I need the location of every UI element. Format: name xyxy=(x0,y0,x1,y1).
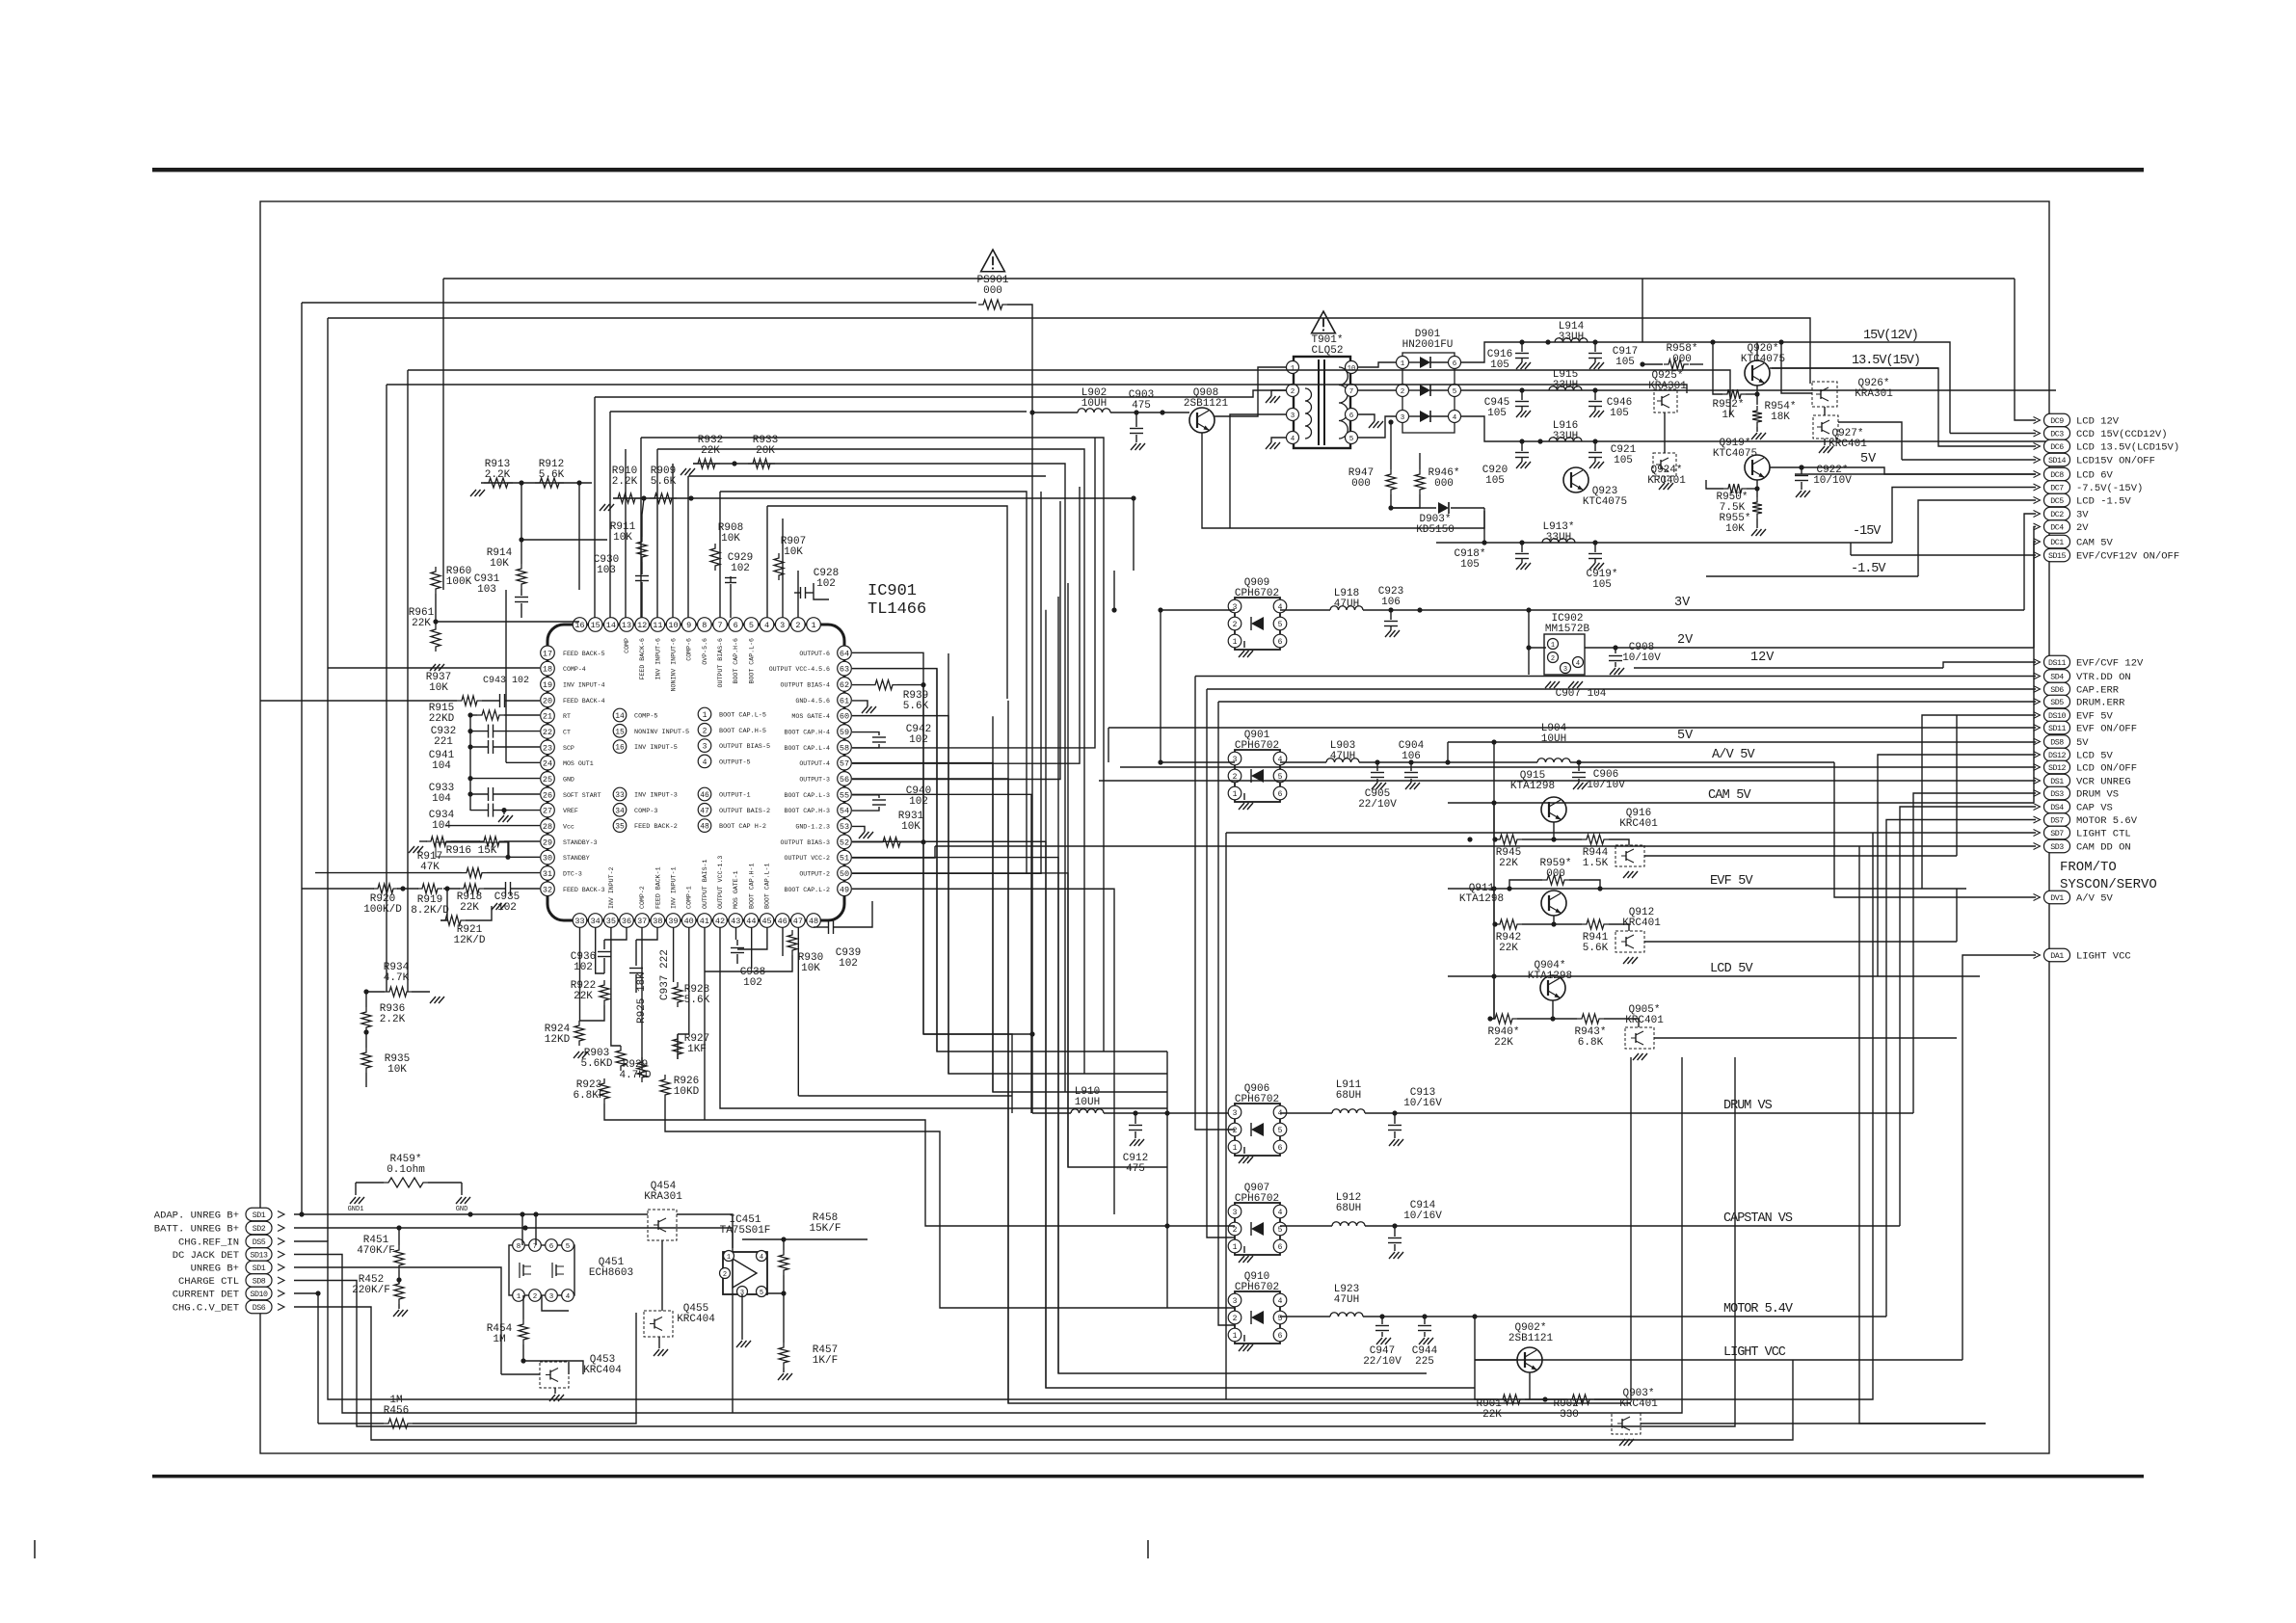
wire DS11 feed xyxy=(1943,662,2036,668)
wire SD11b feed xyxy=(1108,727,2036,729)
svg-text:22K: 22K xyxy=(1482,1409,1502,1421)
svg-text:EVF 5V: EVF 5V xyxy=(2076,711,2114,723)
wire pin33 down xyxy=(579,927,581,1021)
wire top nest vertical xyxy=(442,279,444,590)
wire DC7 feed xyxy=(1892,488,2036,544)
svg-text:BOOT CAP.H-6: BOOT CAP.H-6 xyxy=(733,638,739,684)
svg-text:OVP-5.6: OVP-5.6 xyxy=(702,638,708,665)
svg-text:ECH8603: ECH8603 xyxy=(589,1267,633,1279)
wire xyxy=(852,763,993,1092)
wire vertical x1096 xyxy=(1046,610,1475,1388)
svg-text:8.2K/D: 8.2K/D xyxy=(411,905,449,917)
svg-text:EVF ON/OFF: EVF ON/OFF xyxy=(2076,724,2137,735)
svg-text:LIGHT CTL: LIGHT CTL xyxy=(2076,829,2131,840)
svg-text:FEED BACK-3: FEED BACK-3 xyxy=(563,887,605,893)
svg-text:Vcc: Vcc xyxy=(563,823,574,830)
wire DC3 feed xyxy=(1950,433,2036,435)
svg-text:48: 48 xyxy=(700,823,709,832)
svg-text:2: 2 xyxy=(533,1293,538,1301)
svg-text:61: 61 xyxy=(840,696,849,705)
wire DC1 feed xyxy=(2034,542,2036,803)
svg-text:1: 1 xyxy=(1233,638,1238,647)
svg-text:CHG.REF_IN: CHG.REF_IN xyxy=(178,1237,239,1249)
connector DS11 xyxy=(2044,655,2070,669)
connector DC9 xyxy=(2044,413,2070,427)
wire nest y330 xyxy=(328,318,1810,384)
svg-text:34: 34 xyxy=(615,807,625,815)
svg-text:SYSCON/SERVO: SYSCON/SERVO xyxy=(2060,877,2157,892)
svg-text:COMP: COMP xyxy=(624,638,630,653)
connector DS12 xyxy=(2044,748,2070,761)
wire bus58 xyxy=(852,438,1095,748)
wire T901-D901 xyxy=(1358,362,1396,367)
svg-text:51: 51 xyxy=(840,854,849,864)
svg-text:2: 2 xyxy=(1233,1226,1238,1235)
svg-text:4.7K: 4.7K xyxy=(384,972,410,984)
connector DS6 left xyxy=(246,1300,272,1314)
connector DS4 xyxy=(2044,800,2070,813)
svg-text:COMP-3: COMP-3 xyxy=(634,808,657,815)
wire xyxy=(693,464,1065,1092)
connector SD14 xyxy=(2044,453,2070,466)
svg-text:30: 30 xyxy=(543,854,552,864)
wire lower spread5 xyxy=(705,955,792,971)
wire Q908 to T901 xyxy=(1215,367,1286,416)
wire Q902 base row xyxy=(1475,1317,1498,1399)
wire pin42 down xyxy=(720,927,1167,1108)
svg-text:12: 12 xyxy=(637,621,647,630)
svg-text:LCD 5V: LCD 5V xyxy=(1710,962,1754,976)
svg-text:VCR UNREG: VCR UNREG xyxy=(2076,777,2131,788)
svg-text:FROM/TO: FROM/TO xyxy=(2060,860,2117,875)
svg-text:OUTPUT BIAS-6: OUTPUT BIAS-6 xyxy=(717,638,724,687)
svg-text:19: 19 xyxy=(543,680,552,690)
svg-text:OUTPUT-2: OUTPUT-2 xyxy=(799,870,830,877)
svg-text:60: 60 xyxy=(840,712,849,722)
svg-text:2: 2 xyxy=(1233,1315,1238,1323)
svg-text:DS7: DS7 xyxy=(2050,817,2064,826)
svg-text:105: 105 xyxy=(1610,408,1629,419)
svg-text:27: 27 xyxy=(543,807,552,816)
wire regulator left bus xyxy=(1493,742,1495,1019)
wire DS3 feed xyxy=(1913,793,2036,1113)
svg-text:22K: 22K xyxy=(574,991,593,1002)
svg-text:2: 2 xyxy=(795,621,800,630)
svg-text:105: 105 xyxy=(1614,455,1633,466)
svg-text:OUTPUT VCC-1.3: OUTPUT VCC-1.3 xyxy=(717,856,724,909)
svg-text:STANDBY-3: STANDBY-3 xyxy=(563,839,598,846)
svg-text:41: 41 xyxy=(700,917,709,926)
resistor R942 xyxy=(1495,919,1522,929)
svg-text:2: 2 xyxy=(1401,388,1405,396)
svg-text:5: 5 xyxy=(1278,1127,1283,1135)
bottom tick marks xyxy=(34,1540,36,1558)
wire pin40 down xyxy=(678,927,689,1034)
svg-text:CAPSTAN VS: CAPSTAN VS xyxy=(1723,1211,1793,1226)
connector DC2 xyxy=(2044,507,2070,520)
svg-text:BOOT CAP.L-3: BOOT CAP.L-3 xyxy=(785,792,831,799)
svg-text:BOOT CAP.L-2: BOOT CAP.L-2 xyxy=(785,887,831,893)
svg-text:SD14: SD14 xyxy=(2048,457,2066,466)
svg-text:SD5: SD5 xyxy=(2050,699,2064,707)
wire pin1 up xyxy=(814,583,829,599)
svg-text:225: 225 xyxy=(1415,1356,1434,1368)
svg-text:CAP.ERR: CAP.ERR xyxy=(2076,685,2120,697)
wire vertical x972 xyxy=(937,669,1167,1051)
svg-text:5: 5 xyxy=(749,621,754,630)
svg-text:475: 475 xyxy=(1126,1163,1145,1175)
wire SD6 feed xyxy=(1207,688,2036,690)
svg-text:43: 43 xyxy=(731,917,740,926)
svg-text:COMP-6: COMP-6 xyxy=(686,638,693,661)
svg-text:SD3: SD3 xyxy=(2050,843,2064,852)
svg-text:OUTPUT-5: OUTPUT-5 xyxy=(719,758,751,766)
svg-text:1: 1 xyxy=(1233,1243,1238,1252)
svg-text:DC3: DC3 xyxy=(2050,431,2064,439)
svg-text:13.5V(15V): 13.5V(15V) xyxy=(1852,354,1920,368)
wire vertical x1124 xyxy=(1068,583,1167,1167)
svg-text:106: 106 xyxy=(1381,597,1401,608)
svg-text:46: 46 xyxy=(778,917,788,926)
svg-text:KRC404: KRC404 xyxy=(677,1314,715,1325)
svg-text:68UH: 68UH xyxy=(1336,1090,1361,1102)
connector SD1 left xyxy=(246,1208,272,1221)
svg-text:62: 62 xyxy=(840,680,849,690)
wire pin11 up xyxy=(656,449,658,618)
svg-text:10K: 10K xyxy=(801,963,820,974)
svg-text:7: 7 xyxy=(1349,388,1354,396)
svg-text:17: 17 xyxy=(543,649,552,658)
svg-text:10: 10 xyxy=(668,621,678,630)
wire junction row xyxy=(1391,494,1420,508)
bottom page rule xyxy=(152,1475,2144,1478)
wire SD4 feed xyxy=(1195,676,2036,678)
svg-text:10: 10 xyxy=(1348,365,1355,373)
svg-text:6: 6 xyxy=(1349,412,1354,420)
svg-text:10/10V: 10/10V xyxy=(1587,780,1625,791)
svg-text:6: 6 xyxy=(1453,360,1457,368)
svg-text:24: 24 xyxy=(543,759,552,769)
svg-text:2: 2 xyxy=(723,1271,727,1279)
svg-text:COMP-2: COMP-2 xyxy=(639,886,646,909)
svg-text:23: 23 xyxy=(543,743,552,753)
wire SD8 row xyxy=(294,1057,1735,1426)
svg-text:INV INPUT-5: INV INPUT-5 xyxy=(634,744,678,752)
svg-text:DC JACK DET: DC JACK DET xyxy=(173,1250,239,1262)
svg-text:DC1: DC1 xyxy=(2050,539,2064,547)
svg-text:KRC401: KRC401 xyxy=(1829,439,1867,450)
wire SD13 row xyxy=(294,1057,1682,1413)
svg-text:6: 6 xyxy=(734,621,738,630)
svg-text:5.6K: 5.6K xyxy=(1583,943,1609,954)
svg-text:2V: 2V xyxy=(2076,522,2089,534)
capacitor C937 body xyxy=(635,940,637,966)
wire pin9 up xyxy=(687,476,689,618)
svg-text:DS6: DS6 xyxy=(253,1304,266,1313)
resistor R931 body on pin52 xyxy=(878,838,905,847)
svg-text:10/10V: 10/10V xyxy=(1622,652,1661,664)
svg-text:INV INPUT-3: INV INPUT-3 xyxy=(634,792,678,800)
wire Q453 base xyxy=(501,1373,540,1375)
svg-text:DS11: DS11 xyxy=(2048,659,2066,668)
svg-text:48: 48 xyxy=(809,917,818,926)
svg-text:DS1: DS1 xyxy=(2050,778,2064,786)
connector SD6 xyxy=(2044,682,2070,696)
connector DS3 xyxy=(2044,786,2070,800)
svg-text:105: 105 xyxy=(1615,357,1635,368)
wire DC4 feed xyxy=(2034,527,2036,649)
wire pin12 up xyxy=(640,438,642,618)
svg-text:22K: 22K xyxy=(1499,943,1518,954)
svg-text:2: 2 xyxy=(1551,655,1555,663)
svg-text:15: 15 xyxy=(615,728,625,736)
svg-text:102: 102 xyxy=(909,734,928,746)
svg-text:INV INPUT-2: INV INPUT-2 xyxy=(608,866,615,909)
wire xyxy=(852,652,923,1034)
wire Q915 emitter xyxy=(1553,822,1555,839)
svg-text:VTR.DD ON: VTR.DD ON xyxy=(2076,672,2131,683)
transformer T901 xyxy=(1312,311,1336,333)
svg-text:3: 3 xyxy=(1401,414,1405,422)
svg-text:1: 1 xyxy=(727,1254,731,1262)
svg-text:1: 1 xyxy=(1233,790,1238,799)
wire xyxy=(852,669,937,1051)
wire vertical x1030 xyxy=(993,716,1167,1092)
wire lower spread2 xyxy=(604,1104,1167,1226)
svg-text:DC2: DC2 xyxy=(2050,511,2064,519)
wire pin46 down xyxy=(782,927,784,956)
svg-text:35: 35 xyxy=(606,917,616,926)
svg-text:10/16V: 10/16V xyxy=(1403,1211,1442,1222)
svg-text:KRA301: KRA301 xyxy=(644,1191,682,1203)
svg-text:SD1: SD1 xyxy=(253,1211,266,1220)
wire pin2 up xyxy=(797,571,799,618)
svg-text:CAM 5V: CAM 5V xyxy=(1708,788,1752,803)
svg-text:103: 103 xyxy=(597,565,616,576)
svg-text:LCD -1.5V: LCD -1.5V xyxy=(2076,496,2131,508)
svg-text:52: 52 xyxy=(840,838,849,847)
svg-text:12K/D: 12K/D xyxy=(453,935,485,946)
svg-text:LCD 13.5V(LCD15V): LCD 13.5V(LCD15V) xyxy=(2076,442,2179,454)
svg-text:CHG.C.V_DET: CHG.C.V_DET xyxy=(173,1303,239,1315)
IC901 right pins 64..49 xyxy=(838,646,852,660)
wire cap bus column xyxy=(469,715,471,811)
svg-text:5.6KD: 5.6KD xyxy=(580,1058,612,1070)
wire DS5 row xyxy=(294,1057,1631,1399)
svg-text:103: 103 xyxy=(477,584,496,596)
connector SD4 xyxy=(2044,670,2070,683)
svg-text:KTC4075: KTC4075 xyxy=(1583,496,1627,508)
svg-text:1M: 1M xyxy=(493,1334,505,1345)
IC901 top pins 16..1 xyxy=(573,618,587,632)
wire pin48 loop xyxy=(814,926,815,928)
svg-text:59: 59 xyxy=(840,728,849,737)
connector SD11 xyxy=(2044,721,2070,734)
wire pin43 down xyxy=(735,927,737,940)
svg-text:000: 000 xyxy=(1351,478,1371,490)
svg-text:220K/F: 220K/F xyxy=(352,1285,390,1296)
wire top nest 1 xyxy=(443,278,2015,279)
connector SD3 xyxy=(2044,839,2070,853)
svg-text:DRUM.ERR: DRUM.ERR xyxy=(2076,698,2125,709)
svg-text:10K: 10K xyxy=(490,558,509,570)
svg-text:SOFT START: SOFT START xyxy=(563,792,601,799)
svg-text:2.2K: 2.2K xyxy=(612,476,638,488)
svg-text:OUTPUT BIAS-3: OUTPUT BIAS-3 xyxy=(781,839,830,846)
svg-text:NONINV INPUT-6: NONINV INPUT-6 xyxy=(671,638,678,691)
wire r922 bottom xyxy=(580,1005,605,1021)
wire nest y427 xyxy=(610,411,1027,412)
wire q451 bottom xyxy=(523,1361,583,1374)
IC901 left pins 17..32 xyxy=(541,646,555,660)
ground pin61 xyxy=(852,701,868,706)
wire pin18 xyxy=(328,667,540,669)
svg-text:12KD: 12KD xyxy=(545,1034,571,1046)
svg-text:53: 53 xyxy=(840,822,849,832)
svg-text:EVF/CVF 12V: EVF/CVF 12V xyxy=(2076,658,2144,670)
svg-text:330: 330 xyxy=(1560,1409,1579,1421)
svg-text:KD5150: KD5150 xyxy=(1416,524,1455,536)
svg-text:10K: 10K xyxy=(613,532,632,544)
wire pin4 up xyxy=(782,519,784,618)
svg-text:FEED BACK-1: FEED BACK-1 xyxy=(654,866,661,909)
svg-text:KRC401: KRC401 xyxy=(1625,1015,1664,1026)
wire rectifier row2 xyxy=(1461,389,2056,391)
wire DS8 feed xyxy=(2035,741,2037,744)
wire DS7 feed xyxy=(1886,820,2036,1317)
svg-text:CAM DD ON: CAM DD ON xyxy=(2076,842,2131,854)
svg-text:54: 54 xyxy=(840,807,849,816)
svg-text:18K: 18K xyxy=(1771,412,1790,423)
svg-text:9: 9 xyxy=(686,621,691,630)
svg-text:36: 36 xyxy=(622,917,631,926)
wire pin36 down xyxy=(604,927,627,940)
wire 2V rail xyxy=(1529,647,1546,649)
svg-text:102: 102 xyxy=(731,563,750,574)
svg-text:10KD: 10KD xyxy=(674,1086,700,1098)
svg-text:1: 1 xyxy=(1233,1332,1238,1341)
svg-text:8: 8 xyxy=(702,621,707,630)
wire L913 row xyxy=(1436,542,1892,544)
wire xyxy=(852,841,1046,1388)
svg-text:1: 1 xyxy=(703,711,707,720)
wire bus57 xyxy=(852,487,1080,763)
ground xyxy=(456,1197,462,1204)
wire pin24 xyxy=(506,761,540,763)
svg-text:KRA301: KRA301 xyxy=(1855,388,1893,400)
connector DS5 left xyxy=(246,1235,272,1248)
wire xyxy=(852,716,948,1074)
svg-text:10UH: 10UH xyxy=(1541,733,1566,745)
connector DC7 xyxy=(2044,481,2070,494)
svg-text:BATT. UNREG B+: BATT. UNREG B+ xyxy=(154,1224,239,1236)
svg-text:OUTPUT BIAS-5: OUTPUT BIAS-5 xyxy=(719,743,770,751)
svg-text:2V: 2V xyxy=(1677,633,1694,648)
svg-text:20: 20 xyxy=(543,696,552,705)
svg-text:MOTOR 5.6V: MOTOR 5.6V xyxy=(2076,815,2138,827)
svg-text:SCP: SCP xyxy=(563,745,574,752)
svg-text:5.6K: 5.6K xyxy=(903,701,929,712)
wire SD3 feed xyxy=(935,845,2036,847)
svg-text:BOOT CAP.H-3: BOOT CAP.H-3 xyxy=(785,808,831,814)
svg-text:RT: RT xyxy=(563,713,571,720)
svg-text:3: 3 xyxy=(1233,1109,1238,1118)
op-amp controller IC U IC901 outline xyxy=(547,625,844,920)
svg-text:6: 6 xyxy=(1278,1332,1283,1341)
wire vertical x1070 xyxy=(1031,1034,1033,1113)
wire EVF rail xyxy=(1448,888,1966,890)
svg-text:6: 6 xyxy=(1278,790,1283,799)
svg-text:37: 37 xyxy=(637,917,647,926)
wire Q902 emitter xyxy=(1529,1372,1531,1399)
svg-text:IC901: IC901 xyxy=(868,582,917,600)
svg-text:5: 5 xyxy=(1278,621,1283,629)
wire nest x340 xyxy=(327,318,329,1241)
svg-text:HN2001FU: HN2001FU xyxy=(1402,339,1454,351)
svg-text:TL1466: TL1466 xyxy=(868,600,926,619)
svg-text:FEED BACK-4: FEED BACK-4 xyxy=(563,698,605,705)
svg-text:15V(12V): 15V(12V) xyxy=(1863,329,1918,343)
svg-text:OUTPUT-4: OUTPUT-4 xyxy=(799,760,830,767)
wire lower spread1 xyxy=(641,1057,643,1070)
svg-text:-1.5V: -1.5V xyxy=(1851,562,1886,576)
svg-text:22K: 22K xyxy=(1494,1037,1513,1049)
svg-text:INV INPUT-4: INV INPUT-4 xyxy=(563,681,605,688)
wire DC6 feed xyxy=(1772,368,2036,446)
svg-text:4: 4 xyxy=(760,1254,763,1262)
wire SD10 row xyxy=(294,1292,318,1294)
svg-text:32: 32 xyxy=(543,885,552,894)
svg-text:6: 6 xyxy=(1278,1144,1283,1153)
svg-text:OUTPUT BAIS-1: OUTPUT BAIS-1 xyxy=(702,860,708,909)
svg-text:45: 45 xyxy=(761,917,771,926)
wire DS6 row xyxy=(294,1307,1793,1440)
svg-text:BOOT CAP.H-5: BOOT CAP.H-5 xyxy=(719,728,766,735)
wire nest y412 xyxy=(595,390,1286,397)
wire pin14 up xyxy=(625,449,627,618)
wire pin8 up xyxy=(719,492,721,618)
svg-text:2SB1121: 2SB1121 xyxy=(1508,1333,1554,1344)
svg-text:SD8: SD8 xyxy=(253,1278,266,1287)
svg-text:INV INPUT-1: INV INPUT-1 xyxy=(671,866,678,909)
wire mid vertical xyxy=(1006,610,1008,699)
svg-text:DC9: DC9 xyxy=(2050,417,2064,426)
resistor R944 xyxy=(1582,835,1609,844)
wire SD1 unreg row xyxy=(294,1267,501,1374)
wire nest x617 xyxy=(594,397,596,618)
IC901 internal pin table xyxy=(613,708,627,722)
svg-text:1K: 1K xyxy=(1722,410,1735,421)
wire vertical x1211 xyxy=(1166,1051,1168,1113)
svg-text:5: 5 xyxy=(1453,388,1457,396)
connector SD8 left xyxy=(246,1274,272,1288)
svg-text:5: 5 xyxy=(566,1243,571,1251)
svg-text:26: 26 xyxy=(543,790,552,800)
svg-text:LCD 6V: LCD 6V xyxy=(2076,470,2114,482)
svg-text:221: 221 xyxy=(434,736,453,748)
svg-text:GND-4.5.6: GND-4.5.6 xyxy=(795,698,830,705)
svg-text:LIGHT VCC: LIGHT VCC xyxy=(2076,951,2131,963)
svg-text:SD2: SD2 xyxy=(253,1225,266,1234)
svg-text:6: 6 xyxy=(1278,1243,1283,1252)
wire bus51 xyxy=(852,857,923,859)
svg-text:14: 14 xyxy=(615,712,625,721)
svg-text:INV INPUT-6: INV INPUT-6 xyxy=(654,638,661,680)
wire lower spread3 xyxy=(665,1100,1167,1308)
connector SD2 left xyxy=(246,1221,272,1235)
wire DS1 feed xyxy=(1099,780,2036,782)
connector SD7 xyxy=(2044,826,2070,839)
